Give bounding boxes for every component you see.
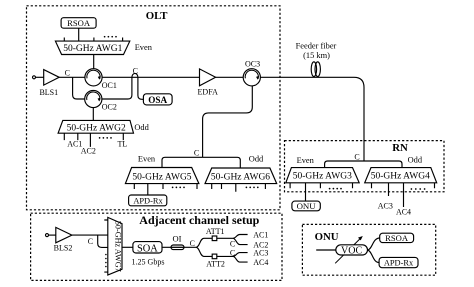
RN dashed box: [285, 141, 445, 192]
RSOA box (OLT): [61, 18, 96, 29]
svg-text:C: C: [230, 240, 235, 249]
svg-text:Even: Even: [297, 156, 315, 165]
wire ONU input: [316, 249, 336, 251]
svg-text:Odd: Odd: [134, 123, 149, 132]
wire upper branch to ATT1: [196, 238, 212, 247]
svg-text:50-GHz AWG7: 50-GHz AWG7: [114, 221, 123, 272]
svg-text:C: C: [88, 237, 93, 246]
wire AC3: [388, 183, 390, 196]
wire AC4: [403, 183, 405, 207]
wire fork to AC3: [233, 253, 248, 257]
AWG1 port ticks: [64, 38, 122, 42]
AWG1 port dots: [104, 36, 117, 38]
svg-text:AC3: AC3: [378, 202, 393, 211]
AWG4 port dots: [411, 188, 426, 190]
circulator OC1: [85, 69, 102, 86]
wire BLS1 to OC1: [59, 76, 85, 78]
wire AWG5 to APD-Rx: [147, 184, 149, 195]
svg-text:OI: OI: [173, 234, 182, 244]
OLT dashed box: [27, 6, 281, 210]
wire RSOA to AWG1: [78, 28, 80, 41]
wire AWG3 to ONU: [305, 183, 307, 201]
svg-text:BLS2: BLS2: [54, 243, 73, 252]
EDFA triangle: [200, 69, 216, 86]
wire branch C down to OC2: [73, 77, 85, 99]
svg-text:AC2: AC2: [81, 147, 96, 156]
svg-text:Even: Even: [135, 43, 153, 52]
svg-text:AC3: AC3: [253, 248, 268, 257]
svg-text:APD-Rx: APD-Rx: [133, 196, 163, 205]
APD-Rx box (ONU): [379, 257, 418, 267]
wire ATT1 to fork: [217, 237, 233, 239]
svg-text:VOC: VOC: [341, 246, 362, 257]
svg-text:OC2: OC2: [102, 103, 117, 112]
svg-text:Adjacent channel setup: Adjacent channel setup: [139, 213, 259, 227]
svg-text:C: C: [133, 66, 138, 75]
wire VOC to APD-Rx: [368, 250, 380, 263]
svg-text:AC4: AC4: [253, 258, 268, 267]
svg-text:OSA: OSA: [148, 95, 167, 105]
svg-text:50-GHz AWG5: 50-GHz AWG5: [132, 172, 191, 182]
svg-text:ATT1: ATT1: [206, 227, 225, 236]
OSA box: [143, 94, 172, 105]
svg-text:(15 km): (15 km): [303, 51, 330, 60]
AWG7 trapezoid: [108, 217, 122, 275]
wire fork to AC2: [233, 238, 248, 244]
AWG2 port ticks: [64, 133, 123, 147]
wire lower branch to ATT2: [196, 247, 212, 256]
wire OC3 tap down to coupler C above AWG5/6: [203, 86, 253, 157]
svg-text:RN: RN: [392, 142, 408, 154]
svg-text:AC4: AC4: [396, 208, 411, 217]
BLS2 triangle: [56, 227, 72, 242]
wire fork to AC1: [233, 235, 248, 239]
wire BLS2 to AWG7: [72, 234, 108, 236]
svg-text:APD-Rx: APD-Rx: [384, 259, 414, 268]
AWG1 trapezoid: [55, 41, 129, 54]
AWG5 port dots: [172, 187, 185, 189]
Adjacent channel setup dashed box: [31, 213, 282, 280]
svg-text:OC3: OC3: [245, 60, 260, 69]
AWG2 port dots: [99, 137, 112, 139]
svg-text:OC1: OC1: [102, 81, 117, 90]
svg-text:50-GHz AWG4: 50-GHz AWG4: [371, 172, 430, 182]
wire AWG1 to OC1: [93, 55, 95, 69]
SOA box: [133, 242, 162, 253]
svg-text:Odd: Odd: [408, 156, 423, 165]
VOC variable arrow: [335, 236, 363, 263]
AWG6 port dots: [246, 187, 259, 189]
wire OC3 feeder to RN: [260, 77, 364, 161]
svg-text:50-GHz AWG3: 50-GHz AWG3: [293, 172, 352, 182]
wire fan to AWG5: [162, 157, 203, 167]
APD-Rx box (OLT): [129, 195, 167, 206]
OI isolator capsule: [171, 245, 184, 250]
svg-text:C: C: [194, 148, 199, 157]
AWG4 trapezoid: [365, 168, 437, 183]
AWG3 port dots: [329, 188, 342, 190]
svg-text:ONU: ONU: [297, 201, 317, 211]
svg-text:1.25 Gbps: 1.25 Gbps: [132, 257, 165, 266]
svg-text:ONU: ONU: [315, 231, 339, 243]
svg-text:Odd: Odd: [249, 155, 264, 164]
svg-text:C: C: [190, 239, 195, 248]
BLS1 triangle: [44, 70, 60, 86]
AWG7 port ticks: [104, 220, 108, 272]
svg-text:Even: Even: [138, 155, 156, 164]
wire AWG7 to SOA: [122, 246, 133, 248]
wire fork to AC4: [233, 256, 248, 262]
wire OC1 to EDFA: [102, 76, 199, 78]
svg-text:BLS1: BLS1: [39, 88, 58, 97]
AWG2 trapezoid: [58, 120, 133, 133]
svg-text:EDFA: EDFA: [198, 88, 219, 97]
wire EDFA to OC3: [216, 76, 244, 78]
wire RN fan to AWG3: [325, 161, 364, 168]
wire branch to AWG7 lower port: [98, 235, 108, 247]
AWG6 trapezoid: [205, 168, 277, 184]
feeder fiber coil: [311, 62, 320, 77]
wire fan to AWG6: [203, 157, 241, 168]
wire OC2 hump to coupler C and OSA: [102, 73, 143, 99]
ONU box (RN output): [292, 201, 320, 211]
wire SOA to OI to coupler: [162, 246, 196, 248]
ONU dashed box: [302, 224, 435, 275]
wire OC2 to AWG2: [92, 108, 94, 121]
AWG3 trapezoid: [286, 168, 359, 183]
wire dot to BLS1: [36, 76, 44, 78]
AWG5 trapezoid: [125, 168, 198, 184]
svg-text:Feeder fiber: Feeder fiber: [296, 41, 337, 50]
circulator OC3: [243, 69, 260, 86]
AWG4 port ticks: [372, 183, 435, 188]
svg-text:SOA: SOA: [137, 243, 158, 254]
attenuator ATT2: [212, 254, 217, 259]
svg-text:ATT2: ATT2: [206, 260, 225, 269]
svg-text:C: C: [65, 69, 70, 78]
BLS1 input dot: [33, 76, 36, 79]
svg-text:50-GHz AWG6: 50-GHz AWG6: [211, 173, 270, 183]
wire VOC to RSOA: [368, 238, 380, 250]
svg-text:OLT: OLT: [146, 10, 169, 22]
AWG5 port ticks: [134, 184, 197, 189]
svg-text:50-GHz AWG1: 50-GHz AWG1: [63, 44, 122, 54]
svg-text:AC1: AC1: [253, 230, 268, 239]
circulator OC2: [85, 90, 102, 107]
BLS2 input dot: [46, 234, 49, 237]
wire ATT2 to fork: [217, 255, 233, 257]
svg-text:RSOA: RSOA: [385, 233, 409, 243]
VOC box: [336, 245, 368, 255]
AWG7 port dots: [105, 254, 107, 268]
svg-text:TL: TL: [118, 139, 128, 148]
svg-text:50-GHz AWG2: 50-GHz AWG2: [67, 123, 126, 133]
RSOA box (ONU): [380, 233, 414, 242]
wire dot to BLS2: [49, 234, 56, 236]
svg-text:RSOA: RSOA: [67, 18, 91, 28]
attenuator ATT1: [212, 236, 217, 241]
AWG6 port ticks: [212, 184, 266, 192]
svg-text:C: C: [354, 152, 359, 161]
AWG3 port ticks: [290, 183, 352, 188]
wire RN fan to AWG4: [364, 161, 402, 168]
